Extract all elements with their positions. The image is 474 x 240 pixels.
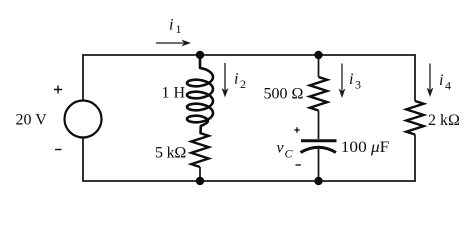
wire left lower: [82, 138, 84, 182]
capacitor plus sign: [294, 127, 299, 132]
svg-text:i: i: [234, 71, 238, 88]
resistor 5kOhm: [191, 133, 208, 167]
current arrow i1: [156, 42, 184, 44]
inductor L 1H coil: [187, 55, 213, 133]
wire left upper: [82, 54, 84, 100]
svg-text:i: i: [439, 72, 443, 89]
svg-text:1 H: 1 H: [162, 85, 186, 102]
capacitor C top plate: [301, 139, 337, 142]
svg-text:i: i: [169, 17, 173, 34]
wire 500 to capacitor: [318, 111, 320, 140]
svg-text:v: v: [277, 140, 285, 157]
node dot top B: [314, 51, 322, 59]
svg-text:3: 3: [355, 78, 361, 92]
svg-text:100 μF: 100 μF: [341, 139, 390, 156]
current arrow i2: [224, 63, 226, 90]
svg-text:5 kΩ: 5 kΩ: [155, 145, 186, 162]
wire bottom: [83, 180, 415, 182]
wire right upper: [414, 54, 416, 101]
wire capacitor to bottom: [318, 147, 320, 181]
resistor 500 Ohm: [310, 77, 327, 111]
resistor 2kOhm: [406, 101, 423, 135]
svg-text:20 V: 20 V: [16, 112, 48, 129]
svg-text:500 Ω: 500 Ω: [264, 86, 304, 103]
wire top: [83, 54, 415, 56]
svg-text:1: 1: [176, 22, 182, 36]
source plus sign: [54, 86, 62, 94]
node dot top A: [196, 51, 204, 59]
wire 5k to bottom: [199, 167, 201, 181]
svg-text:2: 2: [240, 77, 246, 91]
current arrow i3: [341, 64, 343, 91]
capacitor minus sign: [296, 164, 302, 166]
svg-text:C: C: [285, 147, 294, 161]
svg-text:2 kΩ: 2 kΩ: [428, 112, 460, 129]
svg-text:i: i: [349, 71, 353, 88]
svg-text:4: 4: [445, 79, 451, 93]
node dot bottom A: [196, 177, 204, 185]
wire right lower: [414, 135, 416, 182]
source minus sign: [55, 149, 62, 151]
voltage source V 20V: [65, 101, 102, 138]
capacitor C bottom curved plate: [301, 147, 337, 152]
node dot bottom B: [314, 177, 322, 185]
current arrow i4: [429, 64, 431, 90]
wire top node B to 500: [318, 55, 320, 77]
